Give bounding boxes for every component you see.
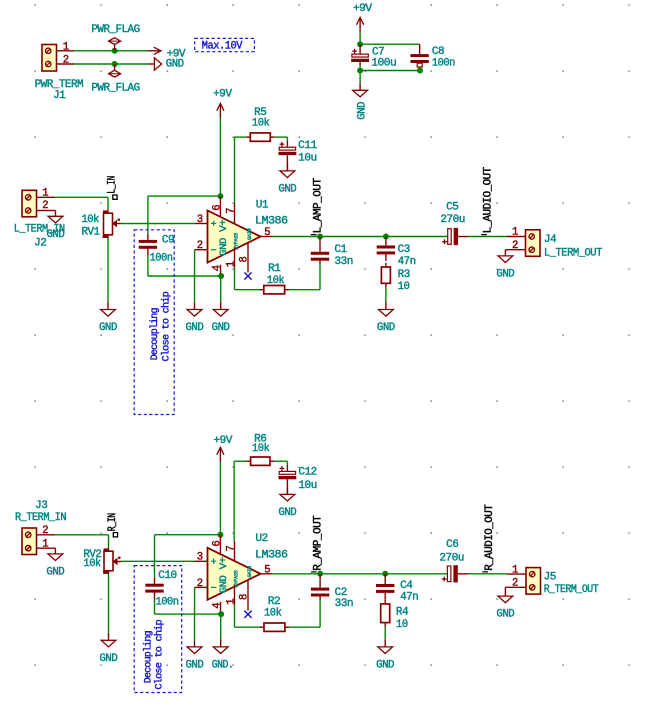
- svg-text:J2: J2: [34, 238, 46, 250]
- J2 pin 2 stub: [37, 200, 50, 212]
- wire +9V rail to C8: [360, 43, 420, 45]
- ground GND below R3: [377, 287, 395, 334]
- connector J2: [22, 190, 37, 217]
- svg-text:U1: U1: [256, 199, 268, 211]
- svg-text:PWR_FLAG: PWR_FLAG: [91, 82, 139, 94]
- wire C6 to J5: [469, 573, 507, 575]
- svg-text:5: 5: [264, 564, 270, 576]
- U2 pin 4: [211, 602, 223, 614]
- ground GND below RV1: [99, 238, 117, 334]
- no-connect U1.8: [244, 272, 251, 279]
- ground GND at U1.4: [212, 276, 230, 334]
- U2 pin 2: [195, 578, 208, 590]
- capacitor C7: [351, 44, 396, 70]
- svg-text:10k: 10k: [264, 607, 282, 619]
- U2 pin 6: [211, 535, 223, 554]
- power symbol GND right: [148, 58, 184, 71]
- svg-text:GND: GND: [212, 322, 230, 334]
- svg-text:L_AMP_OUT: L_AMP_OUT: [312, 178, 324, 233]
- svg-text:1: 1: [63, 41, 69, 53]
- capacitor C12: [279, 466, 317, 495]
- svg-text:47n: 47n: [400, 591, 418, 603]
- power symbol +9V right arrow: [148, 47, 186, 60]
- svg-text:C2: C2: [335, 587, 347, 599]
- note text Decoupling Close to chip (right): [143, 619, 166, 689]
- svg-text:V+: V+: [219, 557, 230, 570]
- svg-text:270u: 270u: [439, 552, 464, 564]
- capacitor C5: [440, 202, 468, 246]
- junction C4 tap: [382, 571, 388, 577]
- label J5 R_TERM_OUT: [544, 571, 599, 596]
- svg-text:10k: 10k: [83, 558, 101, 570]
- svg-text:10k: 10k: [252, 443, 270, 455]
- svg-text:1: 1: [512, 564, 518, 576]
- junction C3 tap: [383, 234, 389, 240]
- svg-text:PWR_FLAG: PWR_FLAG: [91, 24, 139, 36]
- label L_IN: [107, 176, 119, 199]
- svg-text:33n: 33n: [334, 256, 353, 268]
- svg-text:R4: R4: [396, 607, 408, 619]
- junction +9V at U1.6: [217, 193, 223, 199]
- U1 pin 7: [225, 203, 237, 224]
- svg-text:GND: GND: [47, 229, 65, 241]
- svg-text:2: 2: [63, 55, 69, 67]
- junction C2 tap: [317, 571, 323, 577]
- ground GND below C12: [278, 487, 296, 519]
- svg-text:270u: 270u: [440, 214, 465, 226]
- svg-text:R_TERM_IN: R_TERM_IN: [15, 512, 66, 524]
- ground GND at U1.2: [186, 250, 204, 334]
- ground GND at J3.1: [46, 548, 64, 578]
- svg-text:R_IN: R_IN: [107, 513, 119, 531]
- power flag PWR_FLAG top: [91, 24, 139, 51]
- J2 pin 1 stub: [37, 188, 56, 200]
- ground GND at U2.2: [186, 587, 204, 671]
- wire RV2 wiper to U2.3: [122, 560, 195, 562]
- note text Decoupling Close to chip (left): [149, 291, 173, 361]
- U1 pin 8: [239, 242, 251, 272]
- J1 pin 1 stub: [57, 41, 75, 53]
- svg-text:GND.: GND.: [212, 660, 234, 672]
- junction on +9V wire: [112, 48, 118, 54]
- label L_AUDIO_OUT: [481, 167, 495, 234]
- svg-text:4: 4: [211, 603, 223, 609]
- label R_AMP_OUT: [311, 516, 325, 572]
- svg-text:7: 7: [225, 208, 237, 214]
- svg-text:R1: R1: [268, 263, 280, 275]
- svg-text:R_TERM_OUT: R_TERM_OUT: [544, 584, 599, 596]
- note box decoupling (left): [134, 230, 174, 415]
- label J4 L_TERM_OUT: [544, 234, 602, 260]
- svg-text:GND: GND: [219, 575, 230, 593]
- wire J2.1 to RV1: [55, 197, 108, 210]
- svg-text:Decoupling: Decoupling: [149, 308, 161, 361]
- U1 pin 4: [211, 265, 223, 276]
- svg-text:GND: GND: [166, 59, 184, 71]
- svg-text:6: 6: [211, 205, 223, 211]
- U2 pin 7: [225, 541, 237, 562]
- svg-text:10u: 10u: [298, 480, 317, 492]
- svg-text:J3: J3: [35, 500, 47, 512]
- svg-text:+9V: +9V: [213, 89, 233, 101]
- label PWR_TERM J1: [35, 79, 84, 102]
- svg-text:1: 1: [512, 227, 518, 239]
- svg-text:7: 7: [225, 546, 237, 552]
- wire C7-C8 bottom rail: [360, 70, 420, 72]
- ground GND below RV2: [100, 574, 118, 665]
- svg-text:C11: C11: [298, 140, 317, 152]
- wire +9V rail corner to R6: [234, 461, 287, 466]
- ground GND below C11: [278, 163, 296, 195]
- junction on GND wire: [112, 61, 118, 67]
- wire C10 bottom to U2.4 rail: [155, 613, 222, 615]
- junction U1.4 rail: [218, 273, 224, 279]
- capacitor C6: [439, 539, 468, 583]
- J5 pin 1 stub: [507, 564, 527, 576]
- svg-text:L_IN: L_IN: [107, 176, 119, 194]
- svg-text:10: 10: [396, 619, 408, 631]
- svg-text:J4: J4: [544, 234, 556, 246]
- svg-text:2: 2: [42, 200, 48, 212]
- ground GND at J4.2: [496, 250, 514, 281]
- wire R6 to U2.7: [233, 461, 235, 541]
- wire C9 bottom to U1.4 rail: [148, 275, 221, 277]
- svg-text:C4: C4: [400, 580, 412, 592]
- resistor R3: [381, 263, 410, 293]
- svg-text:2: 2: [512, 578, 518, 590]
- svg-text:100n: 100n: [150, 253, 173, 265]
- U1 pin 5: [260, 227, 272, 239]
- wire +9V rail corner to R5: [234, 137, 287, 142]
- svg-text:C6: C6: [446, 539, 458, 551]
- ground GND at J5.2: [496, 587, 514, 620]
- wire J1.2 to GND: [74, 63, 148, 65]
- ground GND below C7: [353, 71, 369, 120]
- svg-text:10k: 10k: [82, 214, 100, 226]
- svg-text:6: 6: [211, 541, 223, 547]
- power symbol +9V (C7 rail): [353, 3, 373, 44]
- svg-text:8: 8: [239, 594, 251, 600]
- svg-text:C12: C12: [298, 467, 317, 479]
- wire R5 to U1.7: [234, 137, 236, 203]
- op-amp U2 LM386: [208, 533, 288, 600]
- svg-text:V+: V+: [219, 219, 230, 232]
- svg-text:4: 4: [211, 265, 223, 271]
- svg-text:100n: 100n: [432, 58, 455, 70]
- svg-text:100n: 100n: [156, 596, 179, 608]
- U1 pin 3: [195, 214, 208, 226]
- svg-text:GND: GND: [186, 322, 204, 334]
- svg-text:GND: GND: [278, 507, 296, 519]
- junction C7 bottom: [357, 68, 363, 74]
- J3 pin 1 stub: [37, 538, 50, 550]
- junction C8 bottom: [417, 68, 423, 74]
- J4 pin 1 stub: [507, 227, 526, 239]
- svg-text:GAIN: GAIN: [247, 566, 253, 578]
- svg-text:LM386: LM386: [255, 215, 288, 227]
- svg-text:C8: C8: [432, 46, 444, 58]
- power symbol +9V (U1): [213, 89, 233, 197]
- ground GND at J2.2: [47, 211, 65, 241]
- svg-text:GND: GND: [46, 567, 64, 579]
- svg-text:Max.10V: Max.10V: [202, 40, 243, 52]
- resistor R6: [246, 434, 274, 466]
- svg-text:R_AUDIO_OUT: R_AUDIO_OUT: [484, 505, 496, 571]
- svg-text:10k: 10k: [252, 118, 270, 130]
- svg-text:33n: 33n: [335, 598, 354, 610]
- connector J4: [526, 230, 541, 256]
- svg-text:+9V: +9V: [353, 3, 373, 15]
- svg-text:5: 5: [264, 227, 270, 239]
- resistor R5: [246, 107, 275, 141]
- svg-text:GND: GND: [496, 609, 514, 621]
- ground GND. at U2.4: [212, 614, 234, 672]
- op-amp U1 LM386: [208, 199, 288, 262]
- svg-text:GND: GND: [357, 102, 369, 120]
- J5 pin 2 stub: [505, 578, 526, 590]
- label L_AMP_OUT: [311, 178, 325, 234]
- junction C1 tap: [317, 234, 323, 240]
- svg-text:2: 2: [197, 578, 203, 590]
- U2 pin 1: [225, 585, 237, 605]
- U2 pin 5: [261, 564, 272, 576]
- svg-text:C10: C10: [158, 570, 177, 582]
- svg-text:10u: 10u: [298, 153, 317, 165]
- label R_AUDIO_OUT: [482, 505, 496, 572]
- J4 pin 2 stub: [505, 240, 525, 252]
- svg-text:3: 3: [197, 552, 203, 564]
- svg-text:LM386: LM386: [255, 550, 288, 562]
- svg-text:RV1: RV1: [82, 227, 100, 239]
- U1 pin 1: [225, 247, 237, 267]
- svg-text:R2: R2: [268, 596, 280, 608]
- note Max.10V: [195, 38, 255, 52]
- svg-text:J1: J1: [53, 90, 65, 102]
- capacitor C9: [139, 196, 175, 276]
- svg-text:2: 2: [42, 525, 48, 537]
- U1 pin 6: [211, 196, 223, 216]
- svg-text:Close to chip: Close to chip: [160, 291, 172, 361]
- junction +9V at U2.6: [217, 532, 223, 538]
- svg-text:10k: 10k: [267, 275, 285, 287]
- svg-text:R3: R3: [398, 269, 410, 281]
- wire J1.1 to +9V: [74, 50, 148, 52]
- resistor R2: [235, 596, 321, 631]
- wire U2.5 output: [272, 573, 447, 575]
- label R_IN: [107, 513, 119, 537]
- capacitor C2: [311, 574, 353, 627]
- svg-text:GND: GND: [219, 237, 230, 255]
- svg-text:1: 1: [225, 599, 237, 605]
- svg-text:1: 1: [42, 188, 48, 200]
- svg-text:C1: C1: [334, 244, 346, 256]
- wire J3.2 to RV2: [55, 535, 109, 548]
- svg-text:Close to chip: Close to chip: [153, 619, 165, 689]
- svg-text:U2: U2: [256, 533, 268, 545]
- connector J3: [22, 528, 37, 555]
- svg-text:GND: GND: [377, 322, 395, 334]
- wire +9V rail to C10: [155, 534, 221, 536]
- svg-text:3: 3: [197, 214, 203, 226]
- J1 pin 2 stub: [57, 55, 75, 67]
- resistor R4: [381, 600, 409, 631]
- svg-text:2: 2: [512, 240, 518, 252]
- resistor R1: [235, 263, 321, 294]
- svg-text:100u: 100u: [371, 58, 396, 70]
- capacitor C1: [311, 237, 353, 290]
- svg-text:C9: C9: [162, 235, 174, 247]
- U1 pin 2: [195, 240, 208, 252]
- capacitor C8: [410, 44, 455, 70]
- svg-text:C3: C3: [398, 244, 410, 256]
- potentiometer RV2: [83, 548, 121, 575]
- svg-text:1: 1: [42, 538, 48, 550]
- svg-text:GND: GND: [278, 184, 296, 196]
- svg-text:R_AMP_OUT: R_AMP_OUT: [312, 516, 324, 571]
- svg-text:GND: GND: [186, 660, 204, 672]
- junction +9V rail: [357, 41, 363, 47]
- J3 pin 2 stub: [37, 525, 56, 537]
- wire RV1 wiper to U1.3: [121, 223, 195, 225]
- svg-text:Decoupling: Decoupling: [143, 630, 155, 683]
- svg-text:47n: 47n: [398, 256, 416, 268]
- svg-text:C5: C5: [446, 202, 458, 214]
- U2 pin 3: [195, 552, 208, 564]
- capacitor C3: [377, 237, 416, 268]
- U2 pin 8: [239, 580, 251, 611]
- svg-text:GAIN: GAIN: [247, 228, 253, 240]
- svg-text:GND: GND: [99, 322, 117, 334]
- label J3 R_TERM_IN: [15, 500, 66, 524]
- wire U1.5 output: [272, 236, 448, 238]
- svg-text:L_AUDIO_OUT: L_AUDIO_OUT: [483, 167, 495, 233]
- connector J1: [42, 45, 57, 72]
- wire +9V rail to C9: [148, 195, 221, 197]
- capacitor C4: [376, 574, 418, 604]
- wire C5 to J4: [468, 236, 506, 238]
- no-connect U2.8: [244, 611, 251, 618]
- capacitor C11: [279, 140, 317, 171]
- note box decoupling (right): [134, 566, 182, 693]
- ground GND below R4: [376, 627, 394, 672]
- svg-text:J5: J5: [544, 571, 556, 583]
- svg-text:C7: C7: [372, 46, 384, 58]
- svg-text:8: 8: [239, 257, 251, 263]
- svg-text:2: 2: [197, 240, 203, 252]
- svg-text:1: 1: [225, 261, 237, 267]
- power flag PWR_FLAG bottom: [91, 64, 139, 94]
- power symbol +9V (U2): [213, 435, 233, 535]
- svg-text:GND: GND: [376, 660, 394, 672]
- capacitor C10: [145, 535, 178, 614]
- svg-text:L_TERM_OUT: L_TERM_OUT: [544, 247, 602, 259]
- svg-text:+9V: +9V: [213, 435, 233, 447]
- label L_TERM_IN J2: [14, 224, 65, 250]
- svg-text:GND: GND: [496, 269, 514, 281]
- svg-text:GND: GND: [100, 653, 118, 665]
- potentiometer RV1: [82, 210, 122, 239]
- svg-text:10: 10: [398, 281, 410, 293]
- connector J5: [526, 568, 541, 595]
- junction U2.4 rail: [218, 611, 224, 617]
